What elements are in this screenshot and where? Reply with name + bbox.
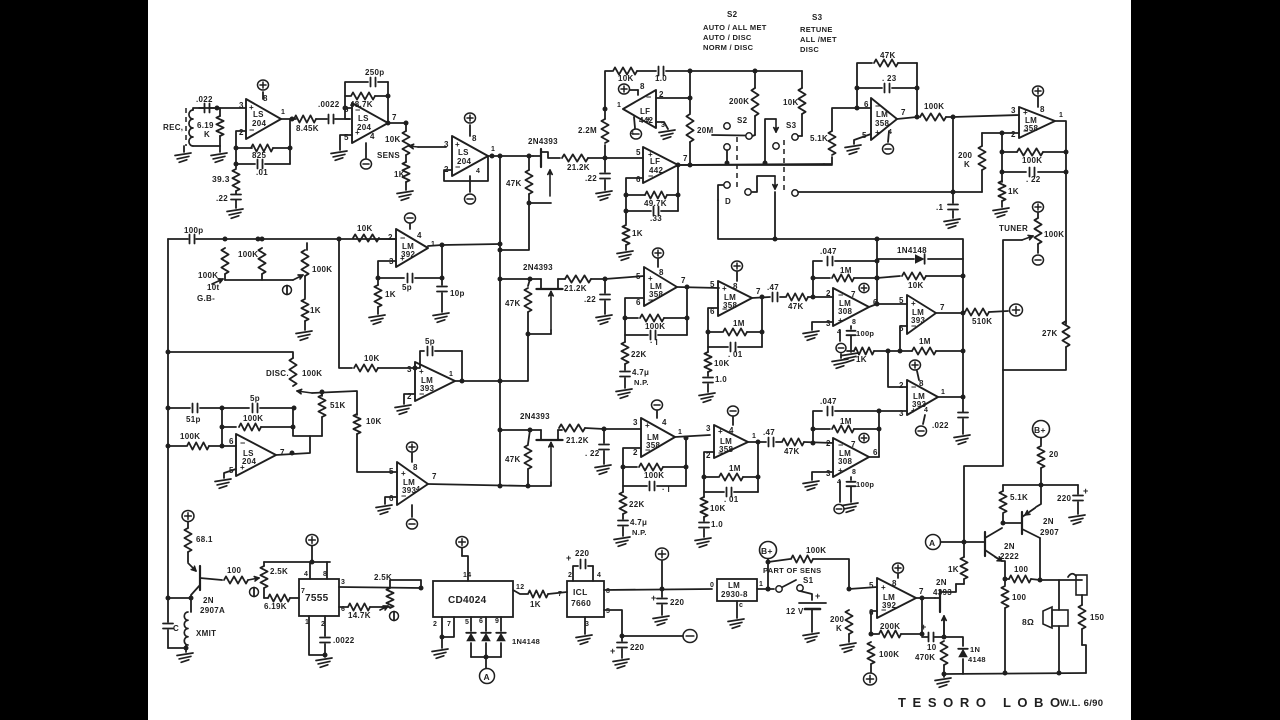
feedback capacitor .047 — [813, 397, 879, 443]
wire pin5 ground — [845, 134, 871, 154]
svg-text:100K: 100K — [924, 102, 944, 111]
svg-text:1: 1 — [941, 389, 945, 396]
svg-text:39.3: 39.3 — [212, 174, 230, 184]
op-amp U6A LM358 — [636, 259, 686, 307]
svg-text:8: 8 — [892, 579, 897, 588]
svg-text:100K: 100K — [1022, 156, 1042, 165]
svg-text:8: 8 — [919, 379, 924, 388]
svg-text:200K: 200K — [880, 622, 900, 631]
svg-text:12: 12 — [516, 584, 524, 591]
op-amp U5A LM393 — [407, 362, 455, 401]
V+ supply — [910, 360, 921, 380]
svg-text:100K: 100K — [243, 414, 263, 423]
svg-text:2N: 2N — [1043, 517, 1054, 526]
svg-text:2N: 2N — [203, 596, 214, 605]
svg-text:5: 5 — [710, 280, 715, 289]
wire mid rail — [678, 161, 824, 166]
wire pin2 — [886, 349, 908, 388]
svg-text:.22: .22 — [585, 174, 597, 183]
svg-text:7555: 7555 — [305, 593, 329, 604]
svg-text:358: 358 — [649, 290, 663, 299]
V+ supply — [656, 548, 669, 589]
svg-text:8: 8 — [659, 268, 664, 277]
resistor 27K — [1003, 321, 1070, 370]
svg-text:LF: LF — [650, 157, 660, 166]
svg-text:1K: 1K — [1008, 187, 1019, 196]
node — [290, 117, 295, 122]
wire switch deck rail — [718, 192, 963, 259]
wire output — [916, 596, 935, 635]
svg-text:47K: 47K — [788, 302, 804, 311]
feedback resistor 100K — [1000, 148, 1067, 165]
svg-text:6: 6 — [873, 448, 878, 457]
svg-text:100K: 100K — [806, 546, 826, 555]
svg-text:PART OF SENS: PART OF SENS — [763, 566, 821, 575]
svg-text:220: 220 — [1057, 494, 1071, 503]
resistor 47K — [786, 293, 833, 311]
wire rail to pin2 — [953, 191, 982, 193]
svg-text:.22: .22 — [216, 194, 228, 203]
svg-text:+: + — [566, 553, 572, 563]
svg-text:4.7μ: 4.7μ — [632, 368, 649, 377]
IC LM2930-8 regulator — [710, 579, 763, 609]
svg-text:· l: · l — [650, 338, 658, 347]
svg-text:.01: .01 — [256, 168, 268, 177]
svg-text:200: 200 — [958, 151, 972, 160]
wire to audio section — [964, 370, 1003, 542]
V+ supply — [407, 442, 418, 452]
svg-text:+: + — [838, 316, 843, 325]
svg-text:22K: 22K — [629, 500, 645, 509]
svg-text:220: 220 — [670, 598, 684, 607]
feedback capacitor .23 — [855, 74, 920, 93]
svg-text:S3: S3 — [812, 13, 823, 22]
V+ supply — [306, 534, 318, 562]
svg-text:7: 7 — [558, 591, 562, 598]
svg-text:3: 3 — [444, 140, 449, 149]
resistor 100 — [224, 566, 259, 584]
svg-text:5p: 5p — [402, 283, 412, 292]
V+ supply — [859, 283, 869, 292]
wire gate loop — [526, 469, 552, 489]
svg-text:51p: 51p — [186, 415, 201, 424]
feedback capacitor .01 — [236, 119, 290, 177]
diode 1N4148 x3 — [466, 617, 540, 657]
svg-text:10p: 10p — [450, 289, 465, 298]
svg-text:3: 3 — [407, 365, 412, 374]
transistor Q5 2N4393 — [933, 578, 956, 634]
switch S2 — [712, 116, 755, 163]
svg-text:100: 100 — [227, 566, 241, 575]
svg-text:DISC: DISC — [800, 45, 819, 54]
XMIT coil L2 — [184, 612, 216, 645]
resistor 20 — [1037, 446, 1058, 485]
svg-text:S1: S1 — [803, 576, 814, 585]
capacitor .0022 — [316, 100, 350, 124]
svg-text:10K: 10K — [618, 74, 634, 83]
svg-text:+: + — [1083, 486, 1089, 496]
svg-text:1: 1 — [431, 241, 435, 248]
B+ supply — [760, 542, 777, 559]
svg-text:C: C — [173, 624, 179, 633]
ground — [695, 538, 711, 547]
V+ supply — [732, 261, 743, 271]
capacitor 4.7u NP — [620, 364, 649, 388]
svg-text:1: 1 — [752, 433, 756, 440]
resistor 10K — [783, 71, 806, 136]
wire output 8 — [604, 587, 712, 592]
svg-text:B+: B+ — [761, 546, 773, 556]
svg-text:N.P.: N.P. — [632, 528, 647, 537]
svg-text:2: 2 — [433, 621, 437, 628]
V- supply — [465, 176, 476, 204]
wire output — [938, 351, 966, 412]
svg-text:CD4024: CD4024 — [448, 595, 487, 606]
svg-text:LS: LS — [358, 114, 369, 123]
V+ supply — [258, 80, 269, 90]
svg-text:358: 358 — [875, 119, 889, 128]
svg-text:2.5K: 2.5K — [270, 567, 288, 576]
svg-text:10K: 10K — [364, 354, 380, 363]
wire feedback right — [875, 238, 880, 307]
resistor 22K — [619, 486, 644, 514]
wire pin3 ground — [803, 472, 833, 490]
wire supply rail — [1003, 484, 1078, 486]
V+ supply — [1033, 86, 1044, 96]
svg-text:49.7K: 49.7K — [644, 199, 667, 208]
svg-text:1K: 1K — [530, 600, 541, 609]
node — [688, 163, 693, 168]
node — [603, 107, 608, 112]
ground — [840, 643, 856, 652]
wire tuner wiper — [1003, 240, 1022, 370]
ground — [316, 655, 332, 667]
node A label — [926, 535, 967, 550]
title TESORO LOBO — [898, 695, 1103, 710]
svg-text:3: 3 — [633, 418, 638, 427]
svg-text:K: K — [204, 130, 210, 139]
potentiometer 100K — [225, 243, 332, 295]
svg-text:7: 7 — [447, 621, 451, 628]
capacitor .22 — [585, 158, 610, 190]
feedback capacitor .22 — [1000, 133, 1067, 184]
svg-text:1: 1 — [1059, 112, 1063, 119]
svg-text:10K: 10K — [783, 98, 799, 107]
svg-text:4: 4 — [662, 418, 667, 427]
capacitor 51p — [168, 404, 225, 425]
wire to U3B — [953, 115, 1019, 117]
svg-text:21.2K: 21.2K — [564, 284, 587, 293]
svg-text:5p: 5p — [250, 394, 260, 403]
feedback resistor 825 — [234, 131, 293, 165]
svg-text:DISC.: DISC. — [266, 369, 289, 378]
feedback capacitor .047 — [813, 247, 877, 297]
svg-text:21.2K: 21.2K — [567, 163, 590, 172]
svg-text:204: 204 — [457, 157, 471, 166]
feedback resistor 49.7K — [624, 178, 681, 208]
svg-text:7: 7 — [919, 587, 924, 596]
svg-text:+: + — [921, 622, 927, 632]
potentiometer 100K 10t G.B. — [197, 248, 229, 303]
op-amp U7 LM308 — [826, 288, 878, 336]
svg-text:. 23: . 23 — [882, 74, 897, 83]
svg-text:4: 4 — [597, 572, 601, 579]
transistor Q1 2N4393 — [528, 137, 560, 196]
svg-text:SENS: SENS — [377, 151, 400, 160]
svg-text:47K: 47K — [505, 299, 521, 308]
svg-text:1K: 1K — [856, 355, 867, 364]
svg-text:LM: LM — [728, 581, 740, 590]
svg-text:1N: 1N — [970, 645, 980, 654]
wire pin3 ground — [576, 617, 592, 644]
svg-text:2: 2 — [899, 381, 904, 390]
wire pin3 rail — [879, 410, 907, 412]
node — [404, 121, 409, 126]
svg-text:8Ω: 8Ω — [1022, 617, 1034, 627]
V+ supply — [456, 536, 468, 556]
svg-text:+: + — [645, 421, 650, 430]
capacitor 4.7u NP — [618, 514, 647, 537]
resistor 10K — [354, 354, 418, 372]
wire pin3 ground — [656, 122, 675, 139]
svg-text:358: 358 — [1024, 124, 1038, 133]
svg-text:68.1: 68.1 — [196, 535, 213, 544]
potentiometer 10K SENS — [377, 123, 418, 160]
svg-text:5: 5 — [606, 608, 610, 615]
svg-text:10K: 10K — [385, 135, 401, 144]
svg-text:308: 308 — [838, 457, 852, 466]
svg-text:T E S O R O: T E S O R O — [898, 695, 987, 710]
wire output — [455, 380, 500, 382]
V- supply — [405, 213, 416, 223]
op-amp U1A LS204 — [239, 92, 285, 139]
wire — [281, 118, 296, 120]
wire — [168, 645, 189, 652]
op-amp U5B LM393 — [389, 453, 437, 505]
wire output — [752, 295, 770, 300]
svg-text:S2: S2 — [737, 116, 748, 125]
svg-text:1: 1 — [449, 371, 453, 378]
feedback resistor 48.7K — [343, 92, 389, 110]
ground — [617, 251, 633, 260]
wire output row — [678, 164, 832, 166]
svg-text:.0022: .0022 — [333, 636, 355, 645]
node — [498, 242, 503, 247]
resistor 100K — [920, 102, 956, 121]
svg-text:LM: LM — [876, 110, 888, 119]
ground — [954, 435, 970, 444]
resistor 470K — [915, 641, 948, 677]
svg-text:.047: .047 — [820, 247, 837, 256]
svg-text:LS: LS — [253, 110, 264, 119]
capacitor 1.0 — [699, 517, 723, 537]
svg-text:10K: 10K — [366, 417, 382, 426]
svg-text:200: 200 — [830, 615, 844, 624]
svg-text:2: 2 — [239, 128, 244, 137]
svg-text:2: 2 — [388, 233, 393, 242]
svg-text:7: 7 — [681, 276, 686, 285]
svg-text:4.7μ: 4.7μ — [630, 518, 647, 527]
svg-text:A: A — [929, 538, 935, 548]
svg-text:8: 8 — [640, 82, 645, 91]
node A out — [484, 655, 489, 669]
feedback resistor 200K — [871, 622, 925, 638]
svg-text:LS: LS — [458, 148, 469, 157]
svg-text:100K: 100K — [302, 369, 322, 378]
V- supply — [652, 400, 663, 410]
feedback capacitor .1 — [625, 318, 687, 347]
svg-text:220: 220 — [630, 643, 644, 652]
svg-text:7660: 7660 — [571, 598, 591, 608]
capacitor 220 — [1057, 485, 1089, 514]
wire signal bus — [499, 156, 501, 486]
svg-text:5: 5 — [465, 619, 469, 626]
ground — [613, 659, 629, 668]
resistor 2.2M — [578, 109, 609, 158]
resistor 68.1 — [184, 522, 213, 562]
wire pin2 — [982, 131, 1019, 136]
svg-text:AUTO / DISC: AUTO / DISC — [703, 33, 752, 42]
svg-text:8: 8 — [413, 463, 418, 472]
resistor 47K — [782, 438, 833, 456]
svg-text:S2: S2 — [727, 10, 738, 19]
wire bus tap — [339, 239, 352, 368]
svg-text:5.1K: 5.1K — [810, 134, 828, 143]
node — [498, 154, 503, 159]
svg-text:−: − — [911, 382, 917, 392]
wire pin5 ground — [331, 135, 352, 160]
resistor 14.7K — [339, 603, 382, 620]
svg-text:7: 7 — [683, 154, 688, 163]
resistor 1K — [374, 285, 395, 314]
svg-text:TUNER: TUNER — [999, 224, 1028, 233]
svg-text:1M: 1M — [919, 337, 931, 346]
svg-text:10K: 10K — [908, 281, 924, 290]
wire pin1 — [309, 616, 325, 655]
svg-text:+: + — [722, 284, 727, 293]
svg-text:1K: 1K — [394, 170, 405, 179]
op-amp U1D LS204 — [229, 434, 285, 476]
wire output row3 — [428, 484, 529, 486]
wire bottom rail — [944, 671, 1086, 676]
svg-text:2907A: 2907A — [200, 606, 225, 615]
svg-text:6: 6 — [229, 437, 234, 446]
svg-text:2: 2 — [568, 572, 572, 579]
capacitor 10p — [437, 245, 465, 312]
V+ supply — [893, 563, 904, 573]
wire pins 2,7 ground — [432, 617, 454, 658]
V+ supply — [182, 510, 194, 521]
svg-text:4: 4 — [729, 426, 734, 435]
feedback resistor 47K — [857, 51, 917, 108]
wire — [604, 428, 641, 430]
wire output — [388, 122, 406, 124]
svg-text:8: 8 — [472, 134, 477, 143]
svg-text:2: 2 — [826, 289, 831, 298]
wire output — [1055, 121, 1069, 324]
svg-text:10K: 10K — [714, 359, 730, 368]
op-amp U4B LM392 — [869, 574, 924, 618]
left bus — [166, 239, 171, 598]
ground — [596, 191, 612, 200]
ground — [935, 674, 951, 687]
feedback capacitor .01 — [708, 298, 762, 359]
feedback capacitor 1.0 — [637, 67, 690, 84]
headphone jack — [1040, 574, 1087, 605]
node — [498, 379, 503, 384]
dashed link S2 — [736, 137, 738, 190]
svg-text:4: 4 — [417, 231, 422, 240]
wire output — [869, 456, 879, 458]
wire pin3 rail — [339, 586, 424, 591]
svg-text:100: 100 — [1014, 565, 1028, 574]
capacitor .022 — [196, 95, 214, 113]
svg-text:2930-8: 2930-8 — [721, 590, 748, 599]
op-amp U3A LM358 — [862, 98, 906, 140]
node — [166, 596, 171, 601]
potentiometer 2.5K — [374, 573, 421, 621]
svg-text:3: 3 — [706, 424, 711, 433]
ground — [653, 616, 669, 625]
wire output — [748, 440, 766, 445]
svg-text:.47: .47 — [767, 283, 779, 292]
svg-text:47K: 47K — [880, 51, 896, 60]
wire — [168, 352, 293, 358]
wire output — [677, 285, 719, 319]
svg-text:100p: 100p — [856, 480, 874, 489]
wire output — [276, 436, 322, 456]
feedback capacitor .1 — [623, 467, 686, 494]
ground — [369, 315, 385, 324]
svg-text:5: 5 — [869, 581, 874, 590]
svg-text:2: 2 — [1011, 130, 1016, 139]
svg-text:S3: S3 — [786, 121, 797, 130]
V- supply — [916, 415, 927, 436]
svg-text:.047: .047 — [820, 397, 837, 406]
resistor 200K — [830, 587, 853, 643]
svg-text:1N4148: 1N4148 — [512, 637, 540, 646]
ground — [803, 633, 819, 642]
wire output — [936, 259, 966, 351]
svg-text:K: K — [964, 160, 970, 169]
resistor 100K — [867, 642, 899, 672]
capacitor .0022 — [320, 616, 355, 658]
capacitor 100p — [847, 477, 875, 502]
svg-text:220: 220 — [575, 549, 589, 558]
svg-text:0: 0 — [710, 582, 714, 589]
B+ supply — [1033, 421, 1050, 446]
svg-text:510K: 510K — [972, 317, 992, 326]
svg-text:393: 393 — [402, 486, 416, 495]
svg-text:. 01: . 01 — [728, 350, 743, 359]
svg-text:825: 825 — [252, 151, 266, 160]
feedback resistor 1M — [811, 266, 880, 282]
capacitor .22 — [0, 0, 1, 1]
resistor 200K — [958, 133, 986, 192]
svg-text:7: 7 — [756, 287, 761, 296]
ground — [842, 503, 858, 512]
transistor Q6 2N2222 — [964, 528, 1019, 585]
node — [528, 428, 533, 433]
wire output — [897, 63, 920, 120]
transistor Q3 2N4393 — [500, 412, 563, 482]
V- supply — [728, 406, 739, 416]
label S3 functions — [800, 13, 837, 54]
op-amp U1B LS204 — [344, 103, 397, 143]
REC receive coil L1 — [163, 108, 220, 146]
resistor 6.19K — [264, 594, 299, 611]
svg-text:+: + — [815, 591, 821, 601]
